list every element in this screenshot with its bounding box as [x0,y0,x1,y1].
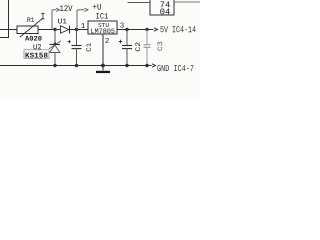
net arrow GND head [152,64,156,67]
node B junction dot [75,28,78,31]
diode U1 [61,26,70,34]
resistor R1 [17,26,38,34]
node G junction dot [101,64,105,68]
label A020 [25,36,42,41]
capacitor C1 [68,30,82,66]
wire node B to IC1 [77,29,89,31]
zener diode U2 [49,30,61,66]
wire bottom ground rail [0,65,152,67]
ground symbol [96,66,110,74]
node I junction dot [145,64,148,67]
label R1 [27,17,34,22]
label KS158 [26,53,48,58]
net arrow +U head [85,8,89,11]
resistor R1 adjust slash [20,19,43,38]
wire node A to diode U1 [55,29,61,31]
net arrow +12V riser [52,10,57,30]
label U1 [58,18,67,23]
label C3 [157,42,162,51]
label 74 04 inside inverter box [160,2,169,8]
node H junction dot [125,64,128,67]
net arrow 5V head [154,28,158,31]
label IC1 [96,13,108,18]
pin 3 label [120,22,124,27]
wire IC1 ground pin 2 [102,34,104,66]
capacitor C2 [119,30,132,66]
box KS158 [24,50,49,59]
wire from 7404 box to right edge [174,1,200,3]
pin 2 label [105,38,108,43]
node A junction dot [53,28,56,31]
label STU inside IC1 [98,23,108,27]
pin 1 label [81,23,85,28]
node C junction dot [125,28,128,31]
wire U1 to node B [70,29,77,31]
node F junction dot [75,64,78,67]
label C2 [135,42,140,51]
wire vertical feed at left edge [8,0,10,30]
wire into 7404 box [128,2,151,4]
regulator IC1 box [88,21,117,34]
wire R1 to node A [38,29,55,31]
inverter IC box 7404 [150,0,174,15]
label +U [93,4,101,10]
label 12V [60,5,72,11]
label LM7805 inside IC1 [91,29,114,34]
wire IC1 output pin 3 [117,29,154,31]
capacitor C3 [144,30,151,66]
label 5V IC4-14 [160,26,195,32]
connector box cut off at left edge [0,30,9,38]
label GND IC4-7 [157,65,193,71]
net arrow +12V head [56,8,60,11]
wire main top rail left [0,29,17,31]
node E junction dot [53,64,56,67]
resistor R1 slash end bar [41,13,44,18]
label U2 [33,44,41,49]
node D junction dot [145,28,148,31]
label C1 [86,43,91,51]
net arrow +U riser [77,10,85,30]
